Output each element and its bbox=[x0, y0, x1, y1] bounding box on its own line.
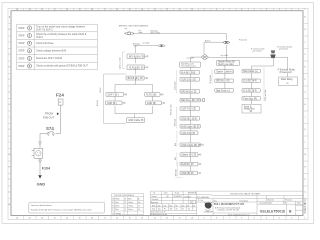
svg-text:GND (B): GND (B) bbox=[147, 103, 156, 105]
wire bbox=[39, 158, 41, 160]
bracket left of chain A bbox=[123, 52, 126, 68]
svg-text:No: No bbox=[193, 205, 195, 207]
svg-text:W/H (B-): W/H (B-) bbox=[97, 99, 99, 106]
chain A box 2 bbox=[127, 65, 148, 70]
chain D box 2 bbox=[242, 79, 260, 83]
colour code table bbox=[112, 194, 144, 215]
connector triangle 1 bbox=[39, 142, 42, 145]
svg-text:Violet: Violet bbox=[128, 208, 133, 211]
svg-text:9: 9 bbox=[204, 218, 205, 220]
connector pair symbol bbox=[270, 50, 275, 58]
chain C wires bbox=[224, 65, 226, 88]
svg-text:Dmg: Dmg bbox=[152, 209, 155, 211]
svg-text:Chk: Chk bbox=[187, 205, 190, 207]
svg-text:W/H GND: W/H GND bbox=[176, 168, 178, 176]
svg-text:Main Relay: Main Relay bbox=[281, 79, 293, 81]
svg-text:-ve Cable: -ve Cable bbox=[142, 42, 149, 44]
svg-text:XLR-7 (B-) 35: XLR-7 (B-) 35 bbox=[181, 109, 196, 111]
svg-text:+ve Cable: +ve Cable bbox=[220, 55, 228, 57]
svg-text:GSL ELECTRIC VALUE TN CHART: GSL ELECTRIC VALUE TN CHART bbox=[230, 193, 261, 196]
svg-text:Email : bull@bullmachines.com: Email : bull@bullmachines.com bbox=[228, 214, 250, 216]
wire T split bbox=[115, 78, 153, 92]
svg-text:35 SQ Cable: 35 SQ Cable bbox=[175, 81, 177, 90]
chain C box 2 bbox=[215, 79, 234, 83]
gnd arrow bbox=[38, 175, 42, 178]
chain B box 4 bbox=[180, 98, 205, 102]
svg-text:1:1: 1:1 bbox=[191, 202, 193, 204]
svg-text:Green: Green bbox=[128, 201, 133, 204]
wire chain A up to eyelet E2 bbox=[136, 46, 158, 54]
STEP row 5 bbox=[18, 56, 62, 60]
svg-text:15: 15 bbox=[129, 9, 131, 11]
svg-text:J: J bbox=[9, 117, 10, 119]
svg-text:GND (B-): GND (B-) bbox=[107, 103, 117, 105]
leader wire bbox=[104, 74, 127, 123]
component box (buzzer) bbox=[32, 148, 43, 158]
STEP row 6 bbox=[18, 64, 88, 68]
svg-text:Name: Name bbox=[152, 205, 156, 207]
svg-text:7: 7 bbox=[229, 9, 230, 11]
wire diamond to chain B header bbox=[191, 57, 202, 62]
svg-text:White: White bbox=[115, 198, 119, 201]
svg-text:16: 16 bbox=[116, 9, 118, 11]
svg-text:20: 20 bbox=[66, 218, 68, 220]
wire splice to diamond bbox=[204, 42, 223, 54]
svg-text:L: L bbox=[9, 142, 10, 144]
label E Connector male pin terminal bbox=[251, 47, 265, 52]
svg-text:2: 2 bbox=[291, 9, 292, 11]
svg-text:Cable: Cable bbox=[138, 32, 142, 34]
svg-text:STEP: STEP bbox=[18, 35, 25, 38]
svg-text:10: 10 bbox=[191, 218, 193, 220]
svg-text:Surface finish as per IS: Surface finish as per IS bbox=[151, 212, 165, 214]
title block bbox=[151, 191, 303, 215]
STEP row 3 bbox=[18, 41, 54, 45]
label -ve Cable bbox=[142, 42, 149, 44]
chain A1 box 1 bbox=[106, 93, 127, 97]
eyelet terminal E1 bbox=[125, 32, 135, 35]
svg-text:13: 13 bbox=[154, 9, 156, 11]
svg-text:Fn: Fn bbox=[182, 209, 184, 211]
chain D bracket right bbox=[263, 67, 265, 101]
svg-text:23: 23 bbox=[29, 218, 31, 220]
svg-text:XLR-7 & XLR-2: XLR-7 & XLR-2 bbox=[36, 28, 53, 31]
svg-text:BF2-B (B+) 35: BF2-B (B+) 35 bbox=[129, 56, 145, 58]
wires bbox=[115, 96, 153, 102]
svg-text:Checked: Checked bbox=[152, 199, 159, 201]
chain C header bbox=[217, 61, 240, 66]
svg-text:Revision: Revision bbox=[285, 199, 292, 201]
chain B box 1 bbox=[180, 71, 200, 75]
svg-text:18: 18 bbox=[91, 9, 93, 11]
chain C bracket bbox=[211, 69, 213, 83]
svg-text:Sign: Sign bbox=[158, 205, 161, 207]
svg-text:XLR-2 (B): XLR-2 (B) bbox=[146, 94, 157, 96]
wire diamond to relay bbox=[208, 57, 287, 69]
svg-text:B+B Cable (B) 35: B+B Cable (B) 35 bbox=[181, 126, 200, 128]
svg-text:4: 4 bbox=[266, 9, 267, 11]
svg-text:11: 11 bbox=[179, 9, 181, 11]
svg-text:5: 5 bbox=[254, 9, 255, 11]
fuse F24 box bbox=[58, 99, 63, 105]
svg-text:(Minus Side): (Minus Side) bbox=[151, 32, 161, 34]
chain A box 3 bbox=[126, 76, 148, 80]
svg-text:Drg: Drg bbox=[214, 199, 217, 202]
svg-text:11: 11 bbox=[179, 218, 181, 220]
svg-text:3: 3 bbox=[279, 218, 280, 220]
svg-text:SHEET NO 17: SHEET NO 17 bbox=[305, 198, 307, 214]
wire bbox=[135, 67, 137, 74]
note box bbox=[29, 202, 105, 213]
svg-text:pin terminal: pin terminal bbox=[279, 48, 288, 51]
svg-text:Batt Cable (+): Batt Cable (+) bbox=[243, 70, 258, 73]
svg-text:Starter Cable(+): Starter Cable(+) bbox=[216, 71, 233, 74]
svg-text:36 SQ Cable: 36 SQ Cable bbox=[210, 75, 212, 84]
chain D fuse relay box bbox=[242, 104, 261, 113]
svg-text:21: 21 bbox=[54, 218, 56, 220]
svg-text:24: 24 bbox=[16, 218, 18, 220]
svg-text:BF2-B (B+) 35: BF2-B (B+) 35 bbox=[181, 91, 197, 93]
svg-text:10: 10 bbox=[191, 9, 193, 11]
chain B header bbox=[180, 62, 201, 68]
svg-text:3: 3 bbox=[279, 9, 280, 11]
svg-text:Check F24 Fuse: Check F24 Fuse bbox=[36, 42, 54, 45]
label +ve Cable bbox=[138, 30, 142, 34]
svg-text:Description: Description bbox=[240, 199, 249, 202]
chain C box 3 bbox=[215, 89, 234, 93]
diamond splice bbox=[201, 54, 208, 60]
chain D box 3 bbox=[242, 89, 260, 93]
svg-text:12: 12 bbox=[166, 9, 168, 11]
wire bbox=[135, 57, 137, 63]
connector triangle 2 bbox=[39, 160, 42, 163]
svg-text:GSLELET50018: GSLELET50018 bbox=[260, 209, 285, 213]
chain D wires bbox=[250, 73, 252, 104]
svg-text:15: 15 bbox=[129, 218, 131, 220]
svg-text:COLOUR CODE DETAILS: COLOUR CODE DETAILS bbox=[114, 194, 135, 197]
svg-text:XLR-7 (B-): XLR-7 (B-) bbox=[108, 94, 119, 96]
chain B box 6 bbox=[180, 117, 200, 121]
svg-text:24: 24 bbox=[16, 9, 18, 11]
svg-text:STEP: STEP bbox=[18, 42, 25, 45]
svg-text:(Preserved): (Preserved) bbox=[280, 71, 292, 74]
chain D box 1 bbox=[242, 69, 260, 73]
svg-text:W/H (B-) Cable: W/H (B-) Cable bbox=[171, 104, 173, 115]
chain B box 5 bbox=[180, 107, 200, 111]
svg-text:F104: F104 bbox=[42, 167, 50, 171]
svg-text:E-2 (R) 36-R: E-2 (R) 36-R bbox=[243, 90, 257, 92]
chain B box 7 bbox=[180, 125, 200, 129]
wire switch to component bbox=[40, 134, 47, 142]
svg-text:W/H: W/H bbox=[175, 157, 177, 160]
svg-text:18: 18 bbox=[91, 218, 93, 220]
sheet frame inner border bbox=[11, 11, 303, 216]
svg-text:1: 1 bbox=[304, 9, 305, 11]
arrow to wire bbox=[57, 112, 59, 115]
zone tick marks right band bbox=[303, 24, 308, 199]
svg-text:B-A (B-) 35-B: B-A (B-) 35-B bbox=[181, 71, 195, 74]
label Battery plus bbox=[151, 29, 161, 34]
svg-text:6: 6 bbox=[241, 9, 242, 11]
svg-text:Orange: Orange bbox=[115, 212, 121, 215]
chain A1 box 2 bbox=[106, 101, 126, 105]
svg-text:Approved: Approved bbox=[151, 201, 158, 204]
svg-text:Pink: Pink bbox=[115, 209, 118, 211]
svg-text:Preserved: Preserved bbox=[239, 39, 247, 42]
svg-text:Gy: Gy bbox=[138, 202, 140, 204]
svg-text:16: 16 bbox=[116, 218, 118, 220]
chain A box 1 bbox=[127, 54, 148, 59]
label Battery minus bbox=[133, 42, 140, 47]
svg-text:19/04/2017: 19/04/2017 bbox=[174, 196, 183, 198]
wire bbox=[39, 145, 41, 149]
svg-text:Blue: Blue bbox=[128, 199, 131, 201]
STEP row 1 bbox=[18, 26, 86, 32]
chain B box 2 bbox=[180, 78, 200, 82]
logo bull bbox=[198, 199, 213, 214]
svg-text:Determine XLR-7 & B+B: Determine XLR-7 & B+B bbox=[36, 57, 62, 60]
svg-text:BF2-B (+) 35: BF2-B (+) 35 bbox=[216, 81, 230, 83]
chain D box 4 bbox=[242, 97, 260, 101]
chain B box 3 bbox=[180, 90, 200, 94]
svg-text:Terminal(chassis): Terminal(chassis) bbox=[181, 65, 196, 68]
svg-text:Check voltage between B+B: Check voltage between B+B bbox=[36, 50, 67, 53]
svg-text:12: 12 bbox=[166, 218, 168, 220]
svg-text:13: 13 bbox=[154, 218, 156, 220]
svg-text:Fuse Box (R): Fuse Box (R) bbox=[243, 98, 257, 100]
svg-text:Rev: Rev bbox=[284, 203, 287, 205]
svg-text:B+B (B-) 35: B+B (B-) 35 bbox=[181, 164, 194, 166]
svg-text:Batt B+: Batt B+ bbox=[205, 39, 211, 42]
zone tick marks top band bbox=[24, 8, 299, 10]
chain B box 10 bbox=[180, 153, 201, 157]
svg-text:STEP: STEP bbox=[18, 50, 25, 53]
svg-text:Check continuity with ground E: Check continuity with ground E7/B-B & F2… bbox=[36, 65, 88, 68]
wire join bbox=[115, 106, 153, 118]
svg-text:14: 14 bbox=[141, 218, 143, 220]
svg-text:A1: A1 bbox=[167, 195, 169, 198]
chain E relay box bbox=[279, 77, 298, 86]
svg-text:Yellow: Yellow bbox=[128, 206, 134, 208]
svg-text:E-1 (R) 36-R: E-1 (R) 36-R bbox=[243, 81, 257, 83]
svg-text:9: 9 bbox=[204, 9, 205, 11]
chain A2 box 1 bbox=[145, 93, 164, 97]
svg-text:F24: F24 bbox=[56, 92, 64, 97]
switch S74 bbox=[47, 131, 54, 136]
chain B box 8 bbox=[180, 131, 198, 135]
title texts bbox=[150, 192, 301, 217]
svg-text:Batt Fuse (+): Batt Fuse (+) bbox=[216, 89, 230, 92]
label E Connector female pin terminal bbox=[277, 45, 292, 50]
svg-text:36 SQ +ve Cable: 36 SQ +ve Cable bbox=[265, 89, 267, 101]
svg-text:XLR-2 (B-) 35: XLR-2 (B-) 35 bbox=[181, 79, 196, 81]
svg-text:6: 6 bbox=[241, 218, 242, 220]
wire down to splice bbox=[225, 34, 227, 41]
chain E wire bbox=[287, 73, 289, 78]
chain C box 1 bbox=[215, 70, 234, 74]
svg-text:XLR-2: XLR-2 bbox=[36, 36, 43, 39]
svg-text:STEP: STEP bbox=[18, 65, 25, 68]
svg-text:14: 14 bbox=[141, 9, 143, 11]
svg-text:Scale: Scale bbox=[175, 193, 179, 195]
svg-text:Stud (+ve side): Stud (+ve side) bbox=[218, 63, 234, 66]
wire connector down-left to chain D bbox=[251, 58, 273, 69]
svg-text:5: 5 bbox=[254, 218, 255, 220]
svg-text:Material: Material bbox=[268, 198, 275, 201]
svg-text:22: 22 bbox=[41, 9, 43, 11]
svg-text:4: 4 bbox=[266, 218, 267, 220]
svg-text:Drawing Number: Drawing Number bbox=[260, 202, 273, 205]
svg-text:+ve: +ve bbox=[124, 28, 127, 30]
svg-text:Pcs: Pcs bbox=[164, 209, 167, 211]
eyelet splice E3 bbox=[223, 41, 230, 43]
chain E relay label bbox=[278, 69, 296, 74]
STEP table bbox=[17, 24, 98, 70]
chain A2 box 2 bbox=[146, 101, 165, 105]
svg-text:23: 23 bbox=[29, 9, 31, 11]
svg-text:XLR-2 (B-) 35: XLR-2 (B-) 35 bbox=[129, 67, 144, 69]
svg-text:17: 17 bbox=[104, 9, 106, 11]
wire battery plus horizontal bbox=[133, 33, 226, 35]
svg-text:20: 20 bbox=[66, 9, 68, 11]
svg-text:GND (B-) 35-B: GND (B-) 35-B bbox=[181, 118, 197, 120]
svg-text:+ve Cable: +ve Cable bbox=[186, 57, 194, 59]
STEP row 2 bbox=[18, 33, 86, 39]
chain B box 9 bbox=[180, 143, 203, 147]
svg-text:F2B OUT: F2B OUT bbox=[43, 116, 55, 120]
svg-text:35 SQ -ve Cable: 35 SQ -ve Cable bbox=[120, 57, 122, 69]
svg-text:BULL MACHINES PVT LTD: BULL MACHINES PVT LTD bbox=[214, 203, 244, 206]
label FROM F2B OUT bbox=[43, 111, 55, 119]
svg-text:Starter (B-) 35: Starter (B-) 35 bbox=[181, 154, 196, 157]
svg-text:GND (B) 35: GND (B) 35 bbox=[181, 173, 194, 175]
svg-text:7: 7 bbox=[229, 218, 230, 220]
svg-text:GND Cable 35: GND Cable 35 bbox=[128, 120, 144, 122]
svg-text:8: 8 bbox=[216, 9, 217, 11]
svg-text:36 W/H: 36 W/H bbox=[100, 87, 102, 93]
svg-text:Drg: Drg bbox=[158, 209, 160, 211]
svg-text:21: 21 bbox=[54, 9, 56, 11]
svg-text:L: L bbox=[305, 142, 306, 144]
svg-text:Red: Red bbox=[115, 202, 118, 204]
svg-text:22: 22 bbox=[41, 218, 43, 220]
svg-text:2: 2 bbox=[291, 218, 292, 220]
svg-text:FROM: FROM bbox=[45, 111, 54, 115]
svg-text:S74: S74 bbox=[46, 126, 54, 131]
zone tick marks bottom band bbox=[24, 216, 299, 220]
STEP row 4 bbox=[18, 49, 66, 53]
svg-text:F: F bbox=[305, 79, 306, 81]
wire to gnd bbox=[39, 163, 41, 175]
chain B box 11 bbox=[180, 162, 201, 166]
svg-text:F: F bbox=[9, 79, 10, 81]
wire splice down to starter header bbox=[225, 45, 227, 61]
chain B wire bbox=[190, 67, 192, 171]
svg-text:STEP: STEP bbox=[18, 27, 25, 30]
svg-text:17: 17 bbox=[104, 218, 106, 220]
svg-text:W/H: W/H bbox=[175, 143, 177, 146]
svg-text:Used On: Used On bbox=[184, 196, 191, 198]
svg-text:Black: Black bbox=[115, 206, 119, 208]
svg-text:Check the continuity between t: Check the continuity between the starter… bbox=[36, 33, 87, 36]
wire splice to connector pair bbox=[230, 42, 274, 50]
svg-text:pin terminal: pin terminal bbox=[253, 50, 262, 53]
svg-text:W/H Cable: W/H Cable bbox=[175, 119, 177, 126]
svg-text:GND: GND bbox=[37, 182, 46, 187]
svg-text:Connector details format:: Connector details format: bbox=[31, 204, 53, 207]
svg-text:STEP: STEP bbox=[18, 57, 25, 60]
svg-text:REVISION: REVISION bbox=[188, 193, 197, 195]
wire F24 down bbox=[56, 105, 61, 133]
svg-text:19: 19 bbox=[79, 9, 81, 11]
chain A gnd box bbox=[127, 118, 145, 123]
svg-text:Drawn: Drawn bbox=[152, 195, 157, 198]
chain B brackets bbox=[175, 70, 182, 178]
node label BEFORE B+ JUNCTION BOX bbox=[119, 25, 149, 31]
eyelet terminal E2 bbox=[158, 45, 165, 47]
svg-text:8: 8 bbox=[216, 218, 217, 220]
svg-text:Date: Date bbox=[164, 192, 168, 195]
svg-text:XLR-2 (B) 35: XLR-2 (B) 35 bbox=[181, 133, 195, 135]
svg-text:19: 19 bbox=[79, 218, 81, 220]
zone tick marks left band bbox=[8, 24, 11, 205]
svg-text:Example: XLR-1 (B) 'XLR' conn: Example: XLR-1 (B) 'XLR' connector; '1' … bbox=[31, 209, 92, 212]
chain B box 12 bbox=[180, 171, 201, 175]
svg-text:GND Cable (B) 35: GND Cable (B) 35 bbox=[181, 145, 201, 147]
svg-text:Batt Fuse (B+) 35: Batt Fuse (B+) 35 bbox=[181, 99, 200, 102]
svg-text:1: 1 bbox=[304, 218, 305, 220]
